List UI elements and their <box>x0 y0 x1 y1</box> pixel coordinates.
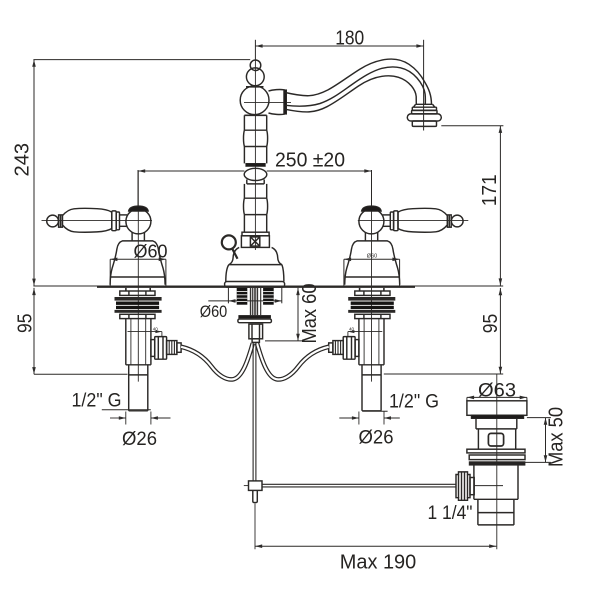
dimension 95 left bottom extension <box>34 373 128 375</box>
horizontal pop-up linkage rod <box>262 483 456 485</box>
svg-text:180: 180 <box>335 28 364 50</box>
dimension D60 centre below deck <box>208 288 281 303</box>
svg-text:171: 171 <box>479 174 501 206</box>
dimension 180 extension lines <box>254 40 256 60</box>
left handle and supply assembly <box>42 171 253 425</box>
svg-text:95: 95 <box>14 314 37 334</box>
dimension 95 right bottom extension <box>384 373 503 375</box>
drain rib 1 <box>467 449 525 453</box>
drain neck <box>476 419 517 429</box>
dimension 95 left line <box>32 288 36 374</box>
svg-text:95: 95 <box>479 314 502 334</box>
valve housing <box>241 236 269 248</box>
spout collar <box>269 90 285 115</box>
dimension Max 60 line <box>265 288 305 341</box>
column segment 3 <box>244 147 266 164</box>
drain lower body <box>474 465 518 499</box>
svg-text:Max 190: Max 190 <box>340 551 417 573</box>
drain overflow hole <box>488 433 503 446</box>
svg-text:Ø26: Ø26 <box>122 429 157 450</box>
dimension D60 right handle bracket <box>344 258 400 287</box>
spout finial ball <box>250 60 261 71</box>
dimension 250 +-20 line <box>138 169 372 173</box>
spout knuckle ball <box>240 86 269 115</box>
svg-text:250 ±20: 250 ±20 <box>275 149 345 171</box>
column dark ring <box>246 163 265 166</box>
dimension 171 line <box>499 126 503 286</box>
dimension Max 50 line <box>525 418 551 463</box>
svg-text:Ø26: Ø26 <box>359 428 394 449</box>
drain rib 3 <box>469 462 525 466</box>
column segment 5 bulge <box>244 198 268 214</box>
column ball <box>244 168 267 180</box>
right handle and supply assembly (mirrored) <box>257 171 468 425</box>
column neck below ball <box>247 180 264 184</box>
spout column centreline <box>254 60 256 250</box>
rod clamp <box>249 481 263 491</box>
leader 1/2 G right <box>363 410 388 412</box>
spout outlet lip <box>412 121 436 126</box>
mounting bracket dark bar <box>238 315 271 318</box>
pop-up knob <box>222 235 236 249</box>
svg-text:Max 50: Max 50 <box>546 407 568 467</box>
column segment 6 <box>244 215 266 233</box>
dimension D60 left handle bracket <box>110 258 166 287</box>
deck extension line right <box>415 285 503 287</box>
dimension 180 line <box>255 44 423 48</box>
spout outlet torus <box>407 114 441 121</box>
column segment 1 <box>244 115 266 130</box>
centre bell tier 1 <box>229 247 282 264</box>
column segment 4 <box>244 184 266 198</box>
spout tube lower line <box>285 76 416 112</box>
rod lower stub <box>253 490 257 502</box>
dimension 95 right line <box>499 288 503 374</box>
spout outlet flare <box>413 104 434 107</box>
drain tailpipe <box>478 499 514 525</box>
column segment 2 bulge <box>244 130 268 146</box>
svg-text:1/2" G: 1/2" G <box>72 389 122 411</box>
rod extension centreline <box>254 504 256 550</box>
deck extension line left <box>33 285 97 287</box>
DIMLAYER <box>32 40 551 548</box>
mounting bracket light bar <box>238 319 272 323</box>
centre nut <box>249 324 263 339</box>
pop-up knob lever <box>232 249 237 259</box>
spout outlet band <box>412 110 437 114</box>
svg-text:Ø60: Ø60 <box>200 303 228 321</box>
spout upper ball <box>246 68 264 86</box>
dimension D63 line <box>467 396 527 402</box>
svg-text:1/2" G: 1/2" G <box>389 390 439 412</box>
svg-text:243: 243 <box>12 143 34 177</box>
centre stub <box>252 339 259 343</box>
drain rod star nut <box>456 472 474 500</box>
spout tube outer top line <box>285 59 431 104</box>
spout outlet ring <box>412 107 436 110</box>
X-box symbol <box>250 237 259 246</box>
centre bell plinth <box>225 282 285 288</box>
pop-up rod doubled <box>252 342 254 481</box>
valve tails <box>250 288 260 315</box>
centre bell tier 2 <box>226 265 284 282</box>
dimension 243 line <box>32 60 36 286</box>
deck thick line <box>97 286 415 288</box>
dimension Max 190 line <box>255 544 496 548</box>
svg-text:1 1/4": 1 1/4" <box>428 503 473 524</box>
dimension 250 extension lines <box>137 170 139 209</box>
drain centreline <box>496 374 498 549</box>
svg-text:Max 60: Max 60 <box>299 284 321 344</box>
dimension 171 top extension <box>441 125 503 127</box>
drain flange <box>467 401 527 416</box>
mounting stud left <box>237 288 248 305</box>
svg-text:Ø60: Ø60 <box>367 253 377 259</box>
column base collar <box>242 232 269 236</box>
leader 1/2 G left <box>102 409 151 411</box>
knuckle joint chord <box>246 86 264 88</box>
spout horizontal centreline <box>244 101 291 103</box>
spout tube middle wall line <box>286 67 426 106</box>
drain body <box>478 429 515 449</box>
drain rib 2 <box>469 455 525 460</box>
dimension 243 top extension <box>33 59 250 61</box>
mounting stud right <box>263 288 274 305</box>
